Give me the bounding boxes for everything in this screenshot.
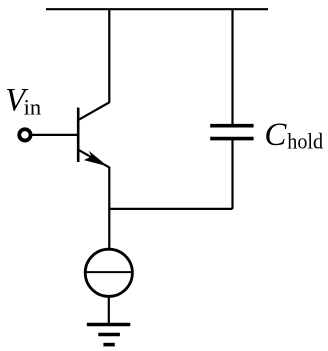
- label C_hold: [264, 117, 323, 154]
- svg-text:in: in: [24, 94, 42, 119]
- transistor Q1 base bar: [77, 108, 80, 162]
- wire emitter vertical down to current source: [108, 167, 110, 249]
- terminal input open circle: [19, 129, 30, 140]
- wire capacitor top lead from rail: [231, 9, 233, 125]
- current source I1: [85, 249, 132, 296]
- wire base lead: [32, 134, 78, 136]
- wire capacitor bottom lead: [231, 140, 233, 209]
- transistor Q1 emitter with arrowhead: [79, 150, 110, 168]
- svg-text:hold: hold: [287, 129, 323, 154]
- wire current source bottom lead: [108, 296, 110, 323]
- capacitor C_hold plates: [210, 126, 253, 139]
- wire collector vertical from rail: [79, 9, 110, 120]
- ground: [87, 325, 131, 345]
- label Vin: [5, 83, 41, 120]
- wire node horizontal to capacitor branch: [108, 208, 232, 210]
- wire top supply rail: [46, 8, 268, 10]
- svg-text:C: C: [264, 117, 287, 153]
